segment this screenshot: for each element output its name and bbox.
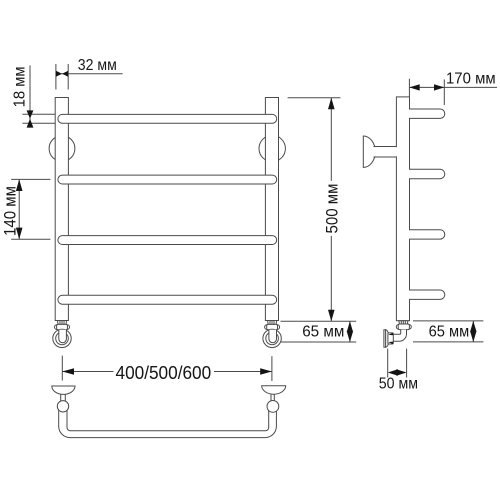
svg-text:65 мм: 65 мм (429, 323, 470, 340)
svg-text:65 мм: 65 мм (302, 323, 344, 340)
svg-text:32 мм: 32 мм (78, 57, 117, 74)
svg-text:50 мм: 50 мм (379, 376, 418, 393)
svg-text:18 мм: 18 мм (12, 66, 29, 107)
svg-text:500 мм: 500 мм (322, 184, 341, 234)
svg-text:400/500/600: 400/500/600 (116, 362, 212, 383)
svg-text:140 мм: 140 мм (0, 186, 19, 236)
svg-text:170 мм: 170 мм (446, 70, 496, 87)
